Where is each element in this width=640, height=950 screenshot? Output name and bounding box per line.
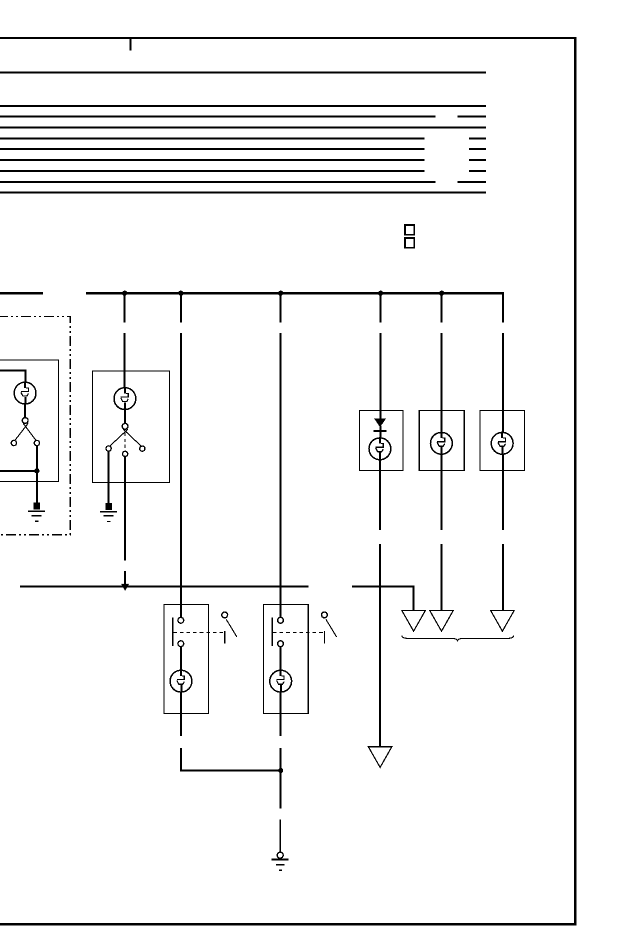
wire drop 5 lower [441,333,443,433]
diode E bar [374,430,387,432]
header row line 6 (split) [0,159,425,161]
switch C stub [224,631,225,644]
frame tick mark [129,39,131,50]
wire drop 4 lower [380,333,382,420]
node bus junction 5 [439,291,444,296]
wire B output upper [124,456,126,561]
switch B arm to left [109,429,128,447]
header row line 2 (split) [0,116,436,118]
wire B left contact to ground [108,450,110,502]
wire A horizontal feed 2 [0,470,37,472]
component D box [264,605,309,714]
header row line 9 [0,192,486,194]
switch A common terminal [22,418,28,424]
link D dashed [273,632,324,634]
header row line 5 (split) [0,148,425,150]
legend square upper [405,225,414,235]
wire drop 3 upper [280,293,282,323]
wire C to D horizontal [180,770,282,772]
switch C lever [226,619,237,637]
ground B [100,503,117,522]
relay C contact bar [172,618,173,646]
connector triangle F [430,611,453,632]
wire drop 6 upper (bus corner) [502,293,504,323]
node bus junction 4 [378,291,383,296]
wire G below bulb [502,454,504,530]
wire drop 2 lower [180,333,182,618]
bulb D [270,670,292,693]
wire drop 3 lower [280,333,282,618]
wire C terminal to bulb [180,646,182,670]
header rule line [0,71,486,73]
wire bus segment main [86,292,504,294]
switch A right contact [34,440,39,445]
wire E lower after gap [379,544,381,747]
relay D contact bar [272,618,273,646]
switch D lever [326,619,337,637]
ground body lines [272,859,289,871]
wire drop 5 upper [441,293,443,323]
wire A bulb to switch [24,405,26,419]
component G box [480,411,525,471]
wire D terminal to bulb [280,646,282,670]
switch B common terminal [122,423,128,429]
node bus junction 1 [122,291,127,296]
connector triangle 1 (from rail corner) [402,611,425,632]
header row line 8 (split) [0,181,436,183]
switch B middle contact [123,451,128,456]
node bus junction 2 [178,291,183,296]
switch D lever terminal [322,612,328,618]
node CD junction [278,768,283,773]
wire drop 1 upper [124,293,126,323]
switch A arm to left [14,423,28,441]
wire G lower after gap [502,544,504,610]
wire drop 4 upper [380,293,382,323]
wire F below bulb [441,454,443,530]
node B arrow into rail [121,584,129,591]
wire D below bulb [280,692,282,736]
frame bottom border [0,923,576,925]
relay D top terminal [278,617,284,623]
wire D lower after gap [280,748,282,808]
brace under connector triangles [402,635,514,641]
wire B output lower [124,571,126,585]
legend square lower [405,238,414,248]
wire F lower after gap [441,544,443,610]
switch D stub [324,631,325,644]
component E box [360,411,404,471]
switch B left contact [106,446,111,451]
relay D bottom terminal [278,641,284,647]
bulb C [170,670,192,693]
wire drop 1 lower [124,333,126,388]
relay C top terminal [178,617,184,623]
header row line 4 (split) [0,137,425,139]
bulb F [431,432,453,455]
bulb E [369,438,391,461]
relay C bottom terminal [178,641,184,647]
wire E below bulb [379,460,381,530]
connector triangle G [491,611,514,632]
node A junction [34,468,39,473]
wire ground lead thin [280,820,282,853]
ground body circle [277,852,283,858]
frame right border [574,37,576,925]
component C box [164,605,209,714]
wire A feed vertical [25,369,27,382]
switch B right contact [140,446,145,451]
wire C below bulb [180,692,182,736]
diode E [374,418,386,427]
wire drop 6 lower [502,333,504,433]
bulb A [14,382,36,405]
wire A contact to ground [36,445,38,503]
connector big triangle [368,747,391,768]
header row line 7 (split) [0,170,425,172]
bulb G [491,432,513,455]
component F box [419,411,464,471]
header row line 3 [0,127,486,129]
switch C lever terminal [222,612,228,618]
node bus junction 3 [278,291,283,296]
component A inner box [0,360,58,482]
switch B dashed centre link [124,433,126,451]
wire E diode to bulb [380,426,382,439]
header row line 1 [0,105,486,107]
wire B bulb to switch [124,410,126,424]
switch A left contact [11,440,16,445]
switch B arm to right [123,429,142,447]
component B box [92,371,169,482]
wire A feed horizontal [0,369,27,371]
frame top border [0,37,576,39]
wire rail corner down [413,586,415,611]
wire drop 2 upper [180,293,182,323]
switch A arm to right [23,423,37,441]
bulb B [114,387,136,410]
link C dashed [173,632,224,634]
wire bus segment left [0,292,43,294]
wire C lower after gap [180,748,182,771]
component A enclosure (dash-dot box) [0,317,70,535]
wire rail right segment [352,586,415,588]
wire rail left segment [20,586,308,588]
ground A [28,502,45,521]
